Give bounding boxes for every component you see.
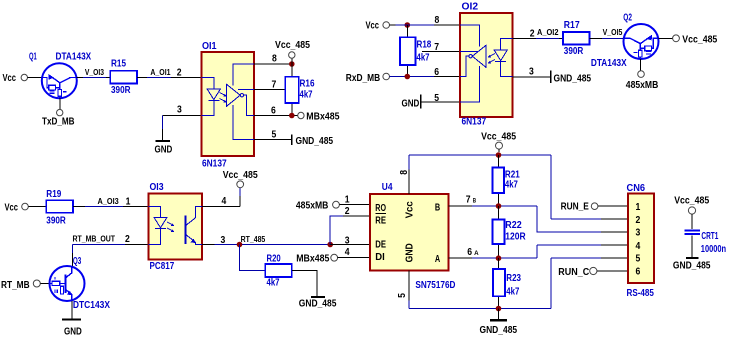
svg-text:Vcc_485: Vcc_485	[223, 170, 258, 181]
node Vcc terminal (Q1)	[3, 73, 28, 84]
wire OI2 pin3 to GND_485	[513, 76, 551, 78]
svg-text:7: 7	[434, 42, 439, 53]
wire OI1 pin3 to GND	[163, 116, 202, 141]
svg-text:8: 8	[435, 15, 440, 26]
svg-text:Vcc_485: Vcc_485	[275, 40, 310, 51]
svg-text:R17: R17	[564, 20, 580, 31]
svg-text:6N137: 6N137	[202, 158, 227, 169]
wire OI1 pin5 to GND_485	[254, 139, 291, 141]
svg-text:R23: R23	[506, 273, 521, 284]
ground GND_485 (rail)	[480, 309, 518, 336]
svg-text:5: 5	[397, 293, 408, 298]
ground GND (OI2 pin5)	[402, 95, 421, 110]
wire OI1 pin7 stub	[254, 88, 285, 90]
node junction RT_485 (R20 tap)	[237, 242, 243, 248]
svg-text:RUN_C: RUN_C	[558, 267, 589, 278]
svg-text:GND: GND	[155, 145, 173, 156]
wire Vcc_485 rail top	[409, 154, 551, 156]
wire OI2 pin7 stub	[422, 51, 460, 53]
svg-text:R15: R15	[111, 59, 126, 70]
node Vcc_485 terminal (Q2)	[673, 34, 718, 45]
transistor Q2 DTA143X	[591, 13, 659, 69]
svg-text:6N137: 6N137	[462, 117, 487, 128]
svg-text:6: 6	[434, 67, 439, 78]
svg-text:A: A	[435, 253, 441, 265]
svg-text:Q2: Q2	[623, 13, 632, 24]
svg-text:OI1: OI1	[202, 41, 217, 52]
svg-text:SN75176D: SN75176D	[415, 280, 455, 291]
svg-text:3: 3	[345, 235, 350, 246]
node Vcc_485 terminal (OI1)	[275, 40, 310, 58]
svg-text:Q1: Q1	[29, 52, 37, 63]
svg-text:Vcc_485: Vcc_485	[481, 131, 516, 142]
wire U4 pin7 B line	[449, 205, 538, 207]
svg-text:3: 3	[529, 67, 534, 78]
svg-text:5: 5	[434, 93, 439, 104]
wire RxD_MB to OI2 pin6	[390, 76, 461, 78]
svg-text:8: 8	[399, 170, 410, 175]
svg-text:2: 2	[345, 206, 350, 217]
wire A line to CN6 pin4	[537, 245, 628, 258]
node junction R18 bottom	[405, 74, 411, 80]
svg-text:DTA143X: DTA143X	[56, 52, 92, 63]
svg-text:RxD_MB: RxD_MB	[346, 73, 380, 84]
resistor R23 4k7	[493, 258, 521, 308]
svg-text:RT_MB_OUT: RT_MB_OUT	[73, 235, 116, 244]
wire GND rail to CN6 pin5	[551, 258, 628, 308]
node RT_MB terminal	[1, 280, 40, 291]
svg-text:6: 6	[636, 267, 641, 278]
node junction A / R23	[496, 255, 502, 261]
svg-text:GND: GND	[404, 243, 416, 263]
wire OI3 pin4 to Vcc_485	[202, 188, 240, 207]
svg-text:1: 1	[126, 197, 131, 208]
node 485xMB terminal (Q2)	[626, 71, 659, 91]
node Vcc_485 terminal (CRT1)	[674, 196, 709, 214]
svg-text:485xMB: 485xMB	[626, 80, 659, 91]
svg-text:B: B	[473, 199, 477, 205]
node junction RT_485 (RE tap)	[327, 242, 333, 248]
svg-text:A_OI3: A_OI3	[98, 197, 120, 206]
svg-text:4: 4	[636, 241, 641, 252]
svg-text:1: 1	[345, 195, 350, 206]
ground GND_485 (OI2 pin3)	[551, 71, 592, 85]
node Vcc_485 terminal (rail)	[481, 131, 516, 152]
wire R15 to OI1 pin2, net A_OI1	[137, 68, 202, 77]
node junction OI1 pin8	[289, 61, 295, 67]
ground GND_485 (CRT1)	[673, 258, 711, 272]
svg-text:OI2: OI2	[462, 2, 479, 13]
svg-text:4: 4	[345, 247, 350, 258]
wire R17 to Q2, net V_OI5	[590, 28, 624, 39]
wire RUN_C to CN6 pin6	[597, 270, 628, 272]
svg-text:Vcc: Vcc	[404, 201, 416, 218]
svg-text:Vcc_485: Vcc_485	[682, 34, 717, 45]
wire R19 to OI3 pin1, net A_OI3	[73, 197, 149, 206]
resistor R19 390R	[46, 189, 73, 227]
svg-text:R18: R18	[417, 40, 432, 51]
svg-text:A_OI1: A_OI1	[150, 68, 171, 77]
wire Q2 emitter to Vcc_485	[659, 37, 673, 39]
resistor R21 4k7	[493, 155, 521, 206]
svg-text:V_OI3: V_OI3	[85, 68, 105, 77]
svg-text:GND: GND	[64, 327, 82, 338]
svg-text:RT_MB: RT_MB	[1, 280, 30, 291]
svg-text:GND_485: GND_485	[296, 136, 334, 147]
wire 485xMB to U4 pin1 RO	[339, 204, 370, 206]
svg-text:GND_485: GND_485	[554, 74, 592, 85]
node junction R18 top	[405, 22, 411, 28]
transistor Q3 DTC143X	[50, 256, 111, 311]
transistor Q1 DTA143X	[29, 52, 91, 99]
wire OI1 pin6 to MBx485	[254, 115, 298, 117]
svg-text:A_OI2: A_OI2	[537, 28, 559, 37]
connector CN6 RS-485	[627, 183, 655, 299]
wire Q2 collector to 485xMB	[639, 59, 641, 71]
wire Q1 collector to TxD_MB	[59, 98, 61, 109]
svg-text:10000n: 10000n	[701, 244, 726, 255]
ground GND (Q3)	[62, 320, 82, 338]
node RUN_C terminal	[558, 267, 597, 278]
wire B line to CN6 pin3	[537, 206, 628, 232]
svg-text:U4: U4	[382, 182, 393, 193]
wire R20 to GND_485	[292, 271, 317, 297]
svg-text:4k7: 4k7	[506, 287, 519, 298]
svg-text:DTA143X: DTA143X	[591, 58, 627, 69]
svg-text:6: 6	[467, 247, 472, 258]
node 485xMB terminal (U4 pin1)	[296, 201, 340, 212]
op-amp optocoupler OI3 PC817	[149, 182, 203, 272]
resistor R16 4k7	[285, 64, 315, 116]
svg-text:R19: R19	[46, 189, 61, 200]
svg-text:CRT1: CRT1	[701, 231, 718, 242]
wire Vcc to Q1	[28, 77, 42, 79]
resistor R18 4k7	[400, 25, 432, 77]
wire GND to OI2 pin5	[422, 101, 460, 103]
wire Q1 to R15, net V_OI3	[77, 68, 111, 77]
wire junction to R20	[240, 245, 266, 271]
svg-text:PC817: PC817	[150, 261, 175, 272]
wire OI3 pin3 RT_485 net	[202, 235, 330, 244]
wire RUN_E to CN6 pin1	[598, 205, 628, 207]
capacitor CRT1 10000n	[684, 214, 726, 257]
svg-text:2: 2	[636, 215, 641, 226]
transceiver U4 SN75176D	[370, 182, 455, 291]
op-amp optocoupler OI2 6N137	[460, 2, 513, 128]
svg-text:RS-485: RS-485	[627, 288, 655, 299]
svg-text:3: 3	[221, 235, 226, 246]
wire junction to Vcc_485 terminal	[291, 58, 293, 64]
wire U4 pin8 to Vcc_485 rail	[408, 155, 410, 194]
svg-text:4: 4	[222, 196, 227, 207]
svg-text:DE: DE	[375, 239, 386, 251]
node Vcc terminal (R19)	[5, 202, 29, 213]
svg-text:TxD_MB: TxD_MB	[42, 117, 75, 128]
svg-text:RUN_E: RUN_E	[561, 201, 589, 212]
svg-text:R20: R20	[267, 254, 282, 265]
svg-text:A: A	[474, 251, 479, 257]
svg-text:DI: DI	[375, 251, 385, 263]
svg-text:7: 7	[466, 195, 471, 206]
svg-text:R22: R22	[505, 220, 522, 231]
svg-text:Vcc: Vcc	[5, 202, 19, 213]
wire Q3 emitter to GND	[71, 301, 73, 319]
svg-text:120R: 120R	[505, 232, 526, 243]
svg-text:4k7: 4k7	[300, 90, 313, 101]
ground GND_485 (R20)	[299, 297, 337, 310]
svg-text:2: 2	[530, 29, 535, 40]
svg-text:485xMB: 485xMB	[296, 201, 329, 212]
wire MBx485 to U4 pin4 DI	[338, 257, 370, 259]
svg-text:5: 5	[636, 254, 641, 265]
svg-text:GND_485: GND_485	[480, 325, 518, 336]
svg-text:RE: RE	[375, 214, 386, 226]
svg-text:Vcc: Vcc	[366, 21, 380, 32]
ground GND (OI1 pin3)	[155, 141, 173, 156]
wire Vcc to R19	[28, 206, 46, 208]
node junction B / R22	[496, 203, 502, 209]
svg-text:4k7: 4k7	[267, 278, 280, 289]
svg-text:RT_485: RT_485	[241, 235, 266, 244]
node RxD_MB terminal	[346, 73, 390, 84]
op-amp optocoupler OI1 6N137	[202, 41, 255, 169]
svg-text:3: 3	[636, 228, 641, 239]
svg-text:4k7: 4k7	[417, 53, 430, 64]
svg-text:V_OI5: V_OI5	[603, 28, 623, 37]
resistor R20 4k7	[265, 254, 292, 289]
svg-text:2: 2	[177, 68, 182, 79]
node MBx485 terminal (U4 pin4)	[296, 254, 337, 265]
node Vcc terminal (OI2)	[366, 21, 390, 32]
wire U4 pin6 A line	[449, 257, 538, 259]
wire GND_485 rail bottom	[409, 308, 551, 310]
svg-text:DTC143X: DTC143X	[73, 300, 110, 311]
svg-text:R16: R16	[300, 79, 315, 90]
svg-text:Vcc: Vcc	[3, 73, 17, 84]
svg-text:GND_485: GND_485	[673, 261, 711, 272]
svg-text:390R: 390R	[564, 46, 584, 57]
node MBx485 terminal (OI1)	[298, 111, 340, 122]
ground GND_485 (OI1 pin5)	[292, 135, 334, 148]
node TxD_MB terminal	[42, 109, 75, 127]
node junction OI1 pin6	[289, 113, 295, 119]
node junction Vcc rail / R21	[496, 152, 502, 158]
wire junction to OI2 pin8	[396, 24, 461, 26]
wire RT_MB to Q3 base	[40, 283, 49, 285]
svg-text:6: 6	[271, 106, 276, 117]
svg-text:MBx485: MBx485	[306, 111, 340, 122]
svg-text:Vcc_485: Vcc_485	[674, 196, 709, 207]
wire junction up to U4 pin2 RE	[330, 216, 370, 245]
svg-text:8: 8	[272, 54, 277, 65]
resistor R17 390R	[563, 20, 590, 57]
svg-text:5: 5	[272, 130, 277, 141]
wire OI2 pin2 to R17, net A_OI2	[513, 28, 564, 39]
svg-text:390R: 390R	[111, 85, 131, 96]
svg-text:MBx485: MBx485	[296, 254, 330, 265]
wire OI1 pin8 to Vcc_485 junction	[254, 63, 292, 65]
svg-text:1: 1	[636, 202, 641, 213]
node RUN_E terminal	[561, 201, 598, 212]
svg-text:CN6: CN6	[627, 183, 646, 194]
wire junction to U4 pin3 DE	[330, 244, 370, 246]
node junction GND rail / R23	[496, 306, 502, 312]
wire U4 pin5 to GND rail	[408, 271, 410, 309]
svg-text:GND: GND	[402, 99, 420, 110]
svg-text:4k7: 4k7	[505, 180, 518, 191]
svg-text:390R: 390R	[46, 216, 66, 227]
svg-text:GND_485: GND_485	[299, 299, 337, 310]
svg-text:OI3: OI3	[150, 182, 164, 193]
wire Vcc rail to CN6 pin2	[551, 155, 628, 219]
resistor R15 390R	[110, 59, 137, 97]
svg-text:3: 3	[177, 105, 182, 116]
svg-text:Q3: Q3	[73, 256, 82, 267]
resistor R22 120R	[493, 206, 527, 258]
wire RT_MB_OUT net to OI3 pin2	[72, 235, 148, 267]
svg-text:B: B	[435, 201, 441, 213]
node Vcc_485 terminal (OI3)	[223, 170, 258, 188]
svg-text:2: 2	[125, 234, 130, 245]
wire Vcc to junction (OI2 pin8)	[390, 24, 396, 26]
svg-text:RO: RO	[375, 202, 386, 214]
